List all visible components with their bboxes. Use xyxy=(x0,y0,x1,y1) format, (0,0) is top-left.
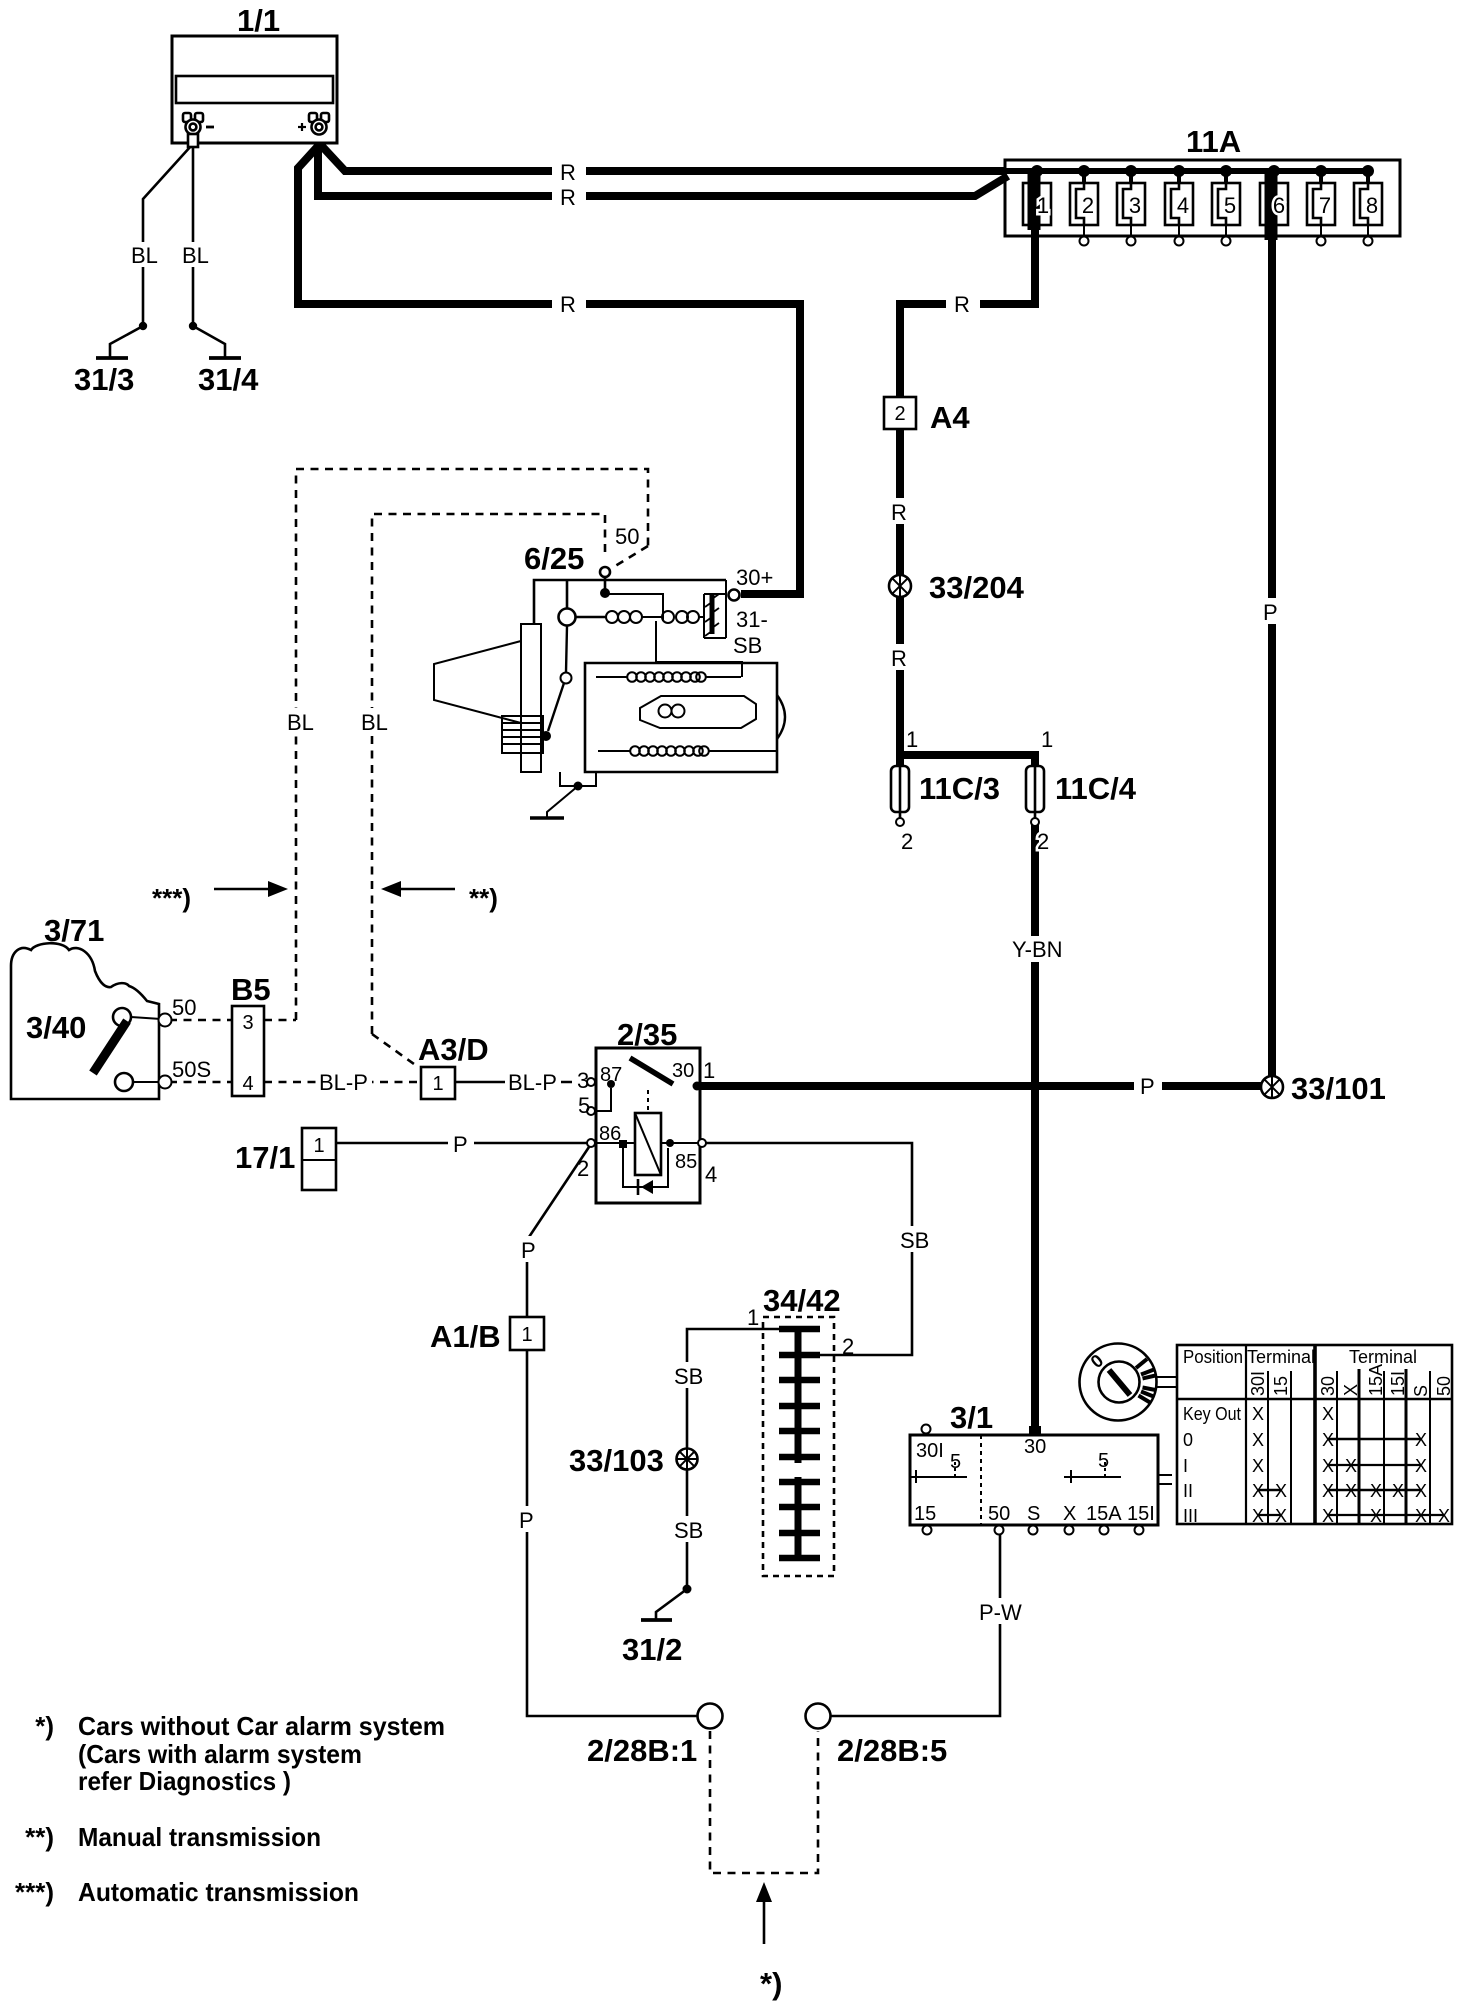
svg-text:R: R xyxy=(560,185,576,210)
dashed wire 3/40 pin50 to B5 pin3 xyxy=(169,1019,232,1022)
svg-text:P: P xyxy=(453,1132,468,1157)
svg-text:X: X xyxy=(1370,1506,1382,1526)
svg-text:X: X xyxy=(1322,1456,1334,1476)
svg-text:Terminal: Terminal xyxy=(1247,1347,1315,1367)
svg-text:R: R xyxy=(560,292,576,317)
relay pin 3 xyxy=(587,1078,595,1086)
svg-text:3: 3 xyxy=(1129,193,1141,218)
fuse box 11A xyxy=(1005,124,1400,236)
wire P fuse 6 down to splice 33/101 xyxy=(1268,168,1276,1087)
dashed box manual transmission (inner) xyxy=(372,514,605,1064)
svg-text:1: 1 xyxy=(906,727,918,752)
svg-text:(Cars with alarm system: (Cars with alarm system xyxy=(78,1739,362,1769)
svg-text:SB: SB xyxy=(900,1228,929,1253)
svg-text:X: X xyxy=(1063,1503,1076,1525)
wire R fuse 1 to connector A4 and 11C/3 xyxy=(900,168,1035,766)
wire label BL-P (dashed) xyxy=(316,1068,372,1095)
svg-text:30+: 30+ xyxy=(736,565,773,590)
svg-text:50S: 50S xyxy=(172,1057,211,1082)
svg-text:R: R xyxy=(954,292,970,317)
svg-text:2: 2 xyxy=(1037,829,1049,854)
svg-text:X: X xyxy=(1252,1481,1264,1501)
svg-text:Automatic transmission: Automatic transmission xyxy=(78,1877,359,1907)
svg-text:BL-P: BL-P xyxy=(508,1070,557,1095)
svg-text:X: X xyxy=(1252,1430,1264,1450)
starter motor housing xyxy=(585,663,777,772)
svg-text:Cars without Car alarm system: Cars without Car alarm system xyxy=(78,1711,445,1741)
svg-text:30: 30 xyxy=(1318,1376,1338,1396)
svg-text:B5: B5 xyxy=(231,972,271,1007)
svg-text:11C/3: 11C/3 xyxy=(919,771,1000,806)
starter armature xyxy=(640,696,756,728)
svg-text:1: 1 xyxy=(703,1058,715,1083)
svg-text:1: 1 xyxy=(313,1135,324,1157)
starter pull-in winding xyxy=(606,611,642,623)
wire label R (battery to starter) xyxy=(552,292,586,317)
svg-text:X: X xyxy=(1275,1506,1287,1526)
gear selector inhibitor switch 34/42 xyxy=(747,1283,854,1576)
svg-text:1: 1 xyxy=(1041,727,1053,752)
in-line fuse 11C/3 xyxy=(891,727,1000,854)
svg-text:0: 0 xyxy=(1183,1430,1193,1450)
fuse 4 xyxy=(1165,165,1193,246)
svg-text:4: 4 xyxy=(705,1162,717,1187)
wire label BL (battery right) xyxy=(178,242,214,268)
starter drive pinion xyxy=(521,624,541,772)
wire label P (relay to splice) xyxy=(1134,1072,1162,1099)
wire label BL (automatic dashed) xyxy=(282,708,318,735)
svg-text:S: S xyxy=(1027,1503,1040,1525)
relay pin 4 / 85 xyxy=(666,1139,674,1147)
wire label Y-BN xyxy=(1006,936,1068,962)
battery negative terminal xyxy=(183,113,214,147)
wire label R (battery to bus, upper) xyxy=(552,160,586,185)
svg-text:P: P xyxy=(1263,600,1278,625)
svg-text:**): **) xyxy=(25,1822,54,1852)
svg-text:5: 5 xyxy=(578,1093,590,1118)
svg-text:BL: BL xyxy=(361,710,388,735)
relay switch arm xyxy=(630,1058,673,1084)
wire label R (A4 upper) xyxy=(886,498,913,525)
svg-text:X: X xyxy=(1392,1481,1404,1501)
svg-text:X: X xyxy=(1252,1404,1264,1424)
svg-text:SB: SB xyxy=(733,633,762,658)
steering lock 3/71 (cloud) xyxy=(11,913,159,1099)
svg-text:2: 2 xyxy=(577,1156,589,1181)
relay coil link dashed xyxy=(647,1090,649,1113)
battery 1/1 xyxy=(172,3,337,143)
wire label P (A1/B lower) xyxy=(514,1506,540,1533)
svg-text:Y-BN: Y-BN xyxy=(1012,937,1063,962)
svg-text:1: 1 xyxy=(747,1305,759,1330)
ground 31/2 xyxy=(622,1589,687,1667)
svg-text:A4: A4 xyxy=(930,400,970,435)
svg-text:*): *) xyxy=(760,1966,782,2001)
wire BL battery- to ground 31/4 xyxy=(192,146,195,326)
svg-text:X: X xyxy=(1252,1456,1264,1476)
svg-text:3/40: 3/40 xyxy=(26,1010,86,1045)
arrow to footnote * at bottom xyxy=(756,1882,772,1944)
wire label BL (manual dashed) xyxy=(356,708,392,735)
svg-text:X: X xyxy=(1275,1481,1287,1501)
battery positive terminal xyxy=(298,113,329,135)
svg-text:S: S xyxy=(1411,1385,1431,1397)
dashed wire BL-P B5 pin4 to A3/D xyxy=(264,1081,421,1084)
fuse 2 xyxy=(1070,165,1098,246)
svg-text:R: R xyxy=(891,646,907,671)
relay suppression diode xyxy=(623,1148,668,1187)
svg-text:II: II xyxy=(1183,1481,1193,1501)
wire Y-BN 11C/4 pin2 down to ignition switch 3/1 terminal 30 xyxy=(1031,824,1039,1430)
svg-text:6/25: 6/25 xyxy=(524,541,584,576)
starter upper field winding xyxy=(596,672,741,682)
svg-text:P: P xyxy=(519,1508,534,1533)
wire SB relay 2/35 pin4 to 34/42 pin2 xyxy=(706,1143,912,1355)
footnote * cars without alarm xyxy=(35,1711,445,1796)
svg-text:refer Diagnostics ): refer Diagnostics ) xyxy=(78,1766,291,1796)
svg-text:33/204: 33/204 xyxy=(929,570,1025,605)
connector A3/D pin 1 xyxy=(418,1032,489,1099)
svg-text:2: 2 xyxy=(1082,193,1094,218)
svg-text:SB: SB xyxy=(674,1518,703,1543)
wire label P (A1/B upper) xyxy=(516,1236,542,1263)
wire label P-W xyxy=(974,1598,1026,1625)
dashed wire 3/40 pin50S to B5 pin4 xyxy=(169,1081,232,1084)
svg-text:2: 2 xyxy=(842,1334,854,1359)
svg-text:31/3: 31/3 xyxy=(74,362,134,397)
fuse 1 xyxy=(1023,165,1051,230)
table row II marks xyxy=(1258,1489,1281,1492)
starter solenoid contacts xyxy=(710,595,715,634)
svg-text:*): *) xyxy=(35,1711,54,1741)
starter solenoid housing xyxy=(534,580,726,624)
svg-text:1/1: 1/1 xyxy=(237,3,280,38)
svg-text:50: 50 xyxy=(1434,1376,1454,1396)
wire P 17/1 to relay 2/35 pin2 xyxy=(336,1142,587,1145)
svg-text:Key Out: Key Out xyxy=(1183,1404,1241,1424)
svg-text:3/1: 3/1 xyxy=(950,1400,993,1435)
svg-text:30I: 30I xyxy=(916,1440,944,1462)
splice 33/101 xyxy=(1261,1071,1386,1106)
svg-text:1: 1 xyxy=(432,1073,443,1095)
svg-text:2/28B:1: 2/28B:1 xyxy=(587,1733,697,1768)
starter hold-in winding xyxy=(662,611,699,623)
svg-text:X: X xyxy=(1322,1430,1334,1450)
svg-text:17/1: 17/1 xyxy=(235,1140,295,1175)
connector A1/B pin 1 xyxy=(430,1317,544,1354)
wire label SB (34/42 lower) xyxy=(670,1516,707,1543)
svg-text:2: 2 xyxy=(901,829,913,854)
wire P relay 2/35 pin2 down through A1/B to 2/28B:1 xyxy=(527,1147,697,1716)
svg-text:5: 5 xyxy=(1224,193,1236,218)
junction dot BL 31/4 xyxy=(189,322,197,330)
svg-text:P: P xyxy=(1140,1074,1155,1099)
fuse 3 xyxy=(1117,165,1145,246)
svg-text:5: 5 xyxy=(1098,1450,1109,1472)
connector 2/28B:1 xyxy=(587,1704,723,1769)
svg-text:50: 50 xyxy=(172,995,196,1020)
svg-text:85: 85 xyxy=(675,1151,697,1173)
svg-text:8: 8 xyxy=(1366,193,1378,218)
wire BL battery- to ground 31/3 xyxy=(143,146,191,326)
terminal 50 of starter xyxy=(600,567,610,577)
svg-text:X: X xyxy=(1415,1481,1427,1501)
starter motor 6/25 xyxy=(434,524,785,818)
svg-text:86: 86 xyxy=(599,1123,621,1145)
wire label BL (battery left) xyxy=(127,242,163,268)
arrow for manual transmission note xyxy=(381,881,455,897)
svg-text:III: III xyxy=(1183,1506,1198,1526)
svg-text:11A: 11A xyxy=(1186,124,1241,159)
svg-text:Manual transmission: Manual transmission xyxy=(78,1822,321,1852)
svg-text:31/2: 31/2 xyxy=(622,1632,682,1667)
wire P relay 2/35 pin1 to splice 33/101 xyxy=(700,1082,1272,1090)
connector 17/1 pin 1 xyxy=(235,1128,336,1190)
starter engagement lever xyxy=(541,626,572,741)
connector 2/28B:5 xyxy=(806,1704,948,1769)
relay pin 2 / 86 xyxy=(587,1139,595,1147)
svg-text:50: 50 xyxy=(988,1503,1010,1525)
svg-text:15I: 15I xyxy=(1127,1503,1155,1525)
svg-text:Position: Position xyxy=(1183,1347,1243,1367)
svg-text:30I: 30I xyxy=(1248,1371,1268,1396)
svg-text:3: 3 xyxy=(577,1068,589,1093)
svg-text:X: X xyxy=(1415,1456,1427,1476)
wire label P (17/1 to relay) xyxy=(448,1130,474,1157)
svg-text:7: 7 xyxy=(1319,193,1331,218)
junction dot BL 31/3 xyxy=(139,322,147,330)
svg-text:X: X xyxy=(1322,1506,1334,1526)
svg-text:15A: 15A xyxy=(1366,1364,1386,1396)
svg-text:2: 2 xyxy=(894,403,905,425)
svg-text:**): **) xyxy=(469,883,498,913)
wire label R (A4 lower) xyxy=(886,644,913,671)
svg-text:31/4: 31/4 xyxy=(198,362,259,397)
wire R battery+ to fuse box bus (upper) xyxy=(319,143,1005,171)
fuse 8 xyxy=(1354,165,1382,246)
svg-text:15: 15 xyxy=(914,1503,936,1525)
relay coil xyxy=(635,1113,661,1175)
svg-text:11C/4: 11C/4 xyxy=(1055,771,1137,806)
svg-text:50: 50 xyxy=(615,524,639,549)
svg-text:4: 4 xyxy=(242,1073,253,1095)
svg-text:6: 6 xyxy=(1273,193,1285,218)
connector B5 xyxy=(231,972,271,1096)
svg-text:X: X xyxy=(1415,1430,1427,1450)
svg-text:2/28B:5: 2/28B:5 xyxy=(837,1733,947,1768)
svg-text:***): ***) xyxy=(15,1877,54,1907)
svg-text:30: 30 xyxy=(1024,1436,1046,1458)
svg-text:1: 1 xyxy=(1037,193,1049,218)
dashed link 2/28B:1 to 2/28B:5 xyxy=(710,1731,818,1873)
splice 33/204 xyxy=(889,570,1025,605)
starter ground xyxy=(530,772,596,818)
svg-text:X: X xyxy=(1415,1506,1427,1526)
svg-text:A1/B: A1/B xyxy=(430,1319,501,1354)
relay pin 5 xyxy=(587,1107,595,1115)
svg-text:34/42: 34/42 xyxy=(763,1283,841,1318)
svg-text:P-W: P-W xyxy=(979,1600,1022,1625)
svg-text:33/103: 33/103 xyxy=(569,1443,664,1478)
footnote *** automatic transmission xyxy=(15,1877,359,1907)
svg-text:3/71: 3/71 xyxy=(44,913,104,948)
starter pinion hatched block xyxy=(502,716,543,753)
svg-text:SB: SB xyxy=(674,1364,703,1389)
wire R 11C/3 pin1 to 11C/4 pin1 xyxy=(900,755,1035,766)
svg-text:X: X xyxy=(1345,1456,1357,1476)
key position table xyxy=(1177,1345,1454,1526)
svg-text:P: P xyxy=(521,1238,536,1263)
svg-text:4: 4 xyxy=(1177,193,1189,218)
wire R battery+ to starter 30+ xyxy=(298,145,800,594)
ignition switch 3/1 xyxy=(910,1400,1172,1535)
dashed wire B5 pin3 to automatic transmission line xyxy=(264,1019,296,1022)
svg-text:X: X xyxy=(1252,1506,1264,1526)
wire P-W 3/1 terminal 50 to 2/28B:5 xyxy=(831,1535,1000,1716)
fuse 6 xyxy=(1260,165,1288,240)
svg-text:A3/D: A3/D xyxy=(418,1032,489,1067)
svg-text:X: X xyxy=(1322,1404,1334,1424)
dashed box automatic transmission (outer) xyxy=(296,469,648,1020)
wire label BL-P (solid) xyxy=(505,1068,561,1095)
wire label SB (34/42 upper) xyxy=(670,1362,707,1389)
svg-text:30: 30 xyxy=(672,1060,694,1082)
svg-text:R: R xyxy=(560,160,576,185)
starter solenoid plunger xyxy=(559,609,576,626)
footnote ** manual transmission xyxy=(25,1822,321,1852)
connector A4 pin 2 xyxy=(884,397,970,435)
ground 31/3 xyxy=(74,326,143,397)
junction dot SB at ground 31/2 xyxy=(683,1585,692,1594)
ignition key symbol xyxy=(1080,1344,1178,1421)
fuse 5 xyxy=(1212,165,1240,246)
svg-text:X: X xyxy=(1438,1506,1450,1526)
wire label R (fuse1 to A4) xyxy=(946,292,980,317)
svg-text:X: X xyxy=(1345,1481,1357,1501)
svg-text:BL: BL xyxy=(287,710,314,735)
svg-text:3: 3 xyxy=(242,1012,253,1034)
svg-text:X: X xyxy=(1370,1481,1382,1501)
table row III marks xyxy=(1258,1514,1281,1516)
svg-text:31-: 31- xyxy=(736,607,768,632)
svg-text:R: R xyxy=(891,500,907,525)
wire label R (battery second) xyxy=(552,185,586,210)
svg-text:I: I xyxy=(1183,1456,1188,1476)
svg-text:X: X xyxy=(1322,1481,1334,1501)
relay 2/35 xyxy=(577,1017,717,1203)
svg-text:15A: 15A xyxy=(1086,1503,1122,1525)
svg-text:***): ***) xyxy=(152,883,191,913)
svg-text:BL-P: BL-P xyxy=(319,1070,368,1095)
wire R battery+ to fuse box (second) xyxy=(318,143,1008,196)
svg-text:BL: BL xyxy=(182,243,209,268)
wire label SB (relay pin4) xyxy=(896,1226,933,1253)
starter terminal 30+ xyxy=(729,590,740,601)
wire label P (fuse 6) xyxy=(1258,598,1286,625)
fuse 7 xyxy=(1307,165,1335,246)
arrow for automatic transmission note xyxy=(214,881,288,897)
svg-text:1: 1 xyxy=(521,1324,532,1346)
splice 33/103 xyxy=(569,1443,698,1478)
wire SB 34/42 pin1 to ground 31/2 xyxy=(687,1329,779,1589)
ignition starter switch 3/40 xyxy=(26,995,211,1091)
svg-text:15: 15 xyxy=(1271,1376,1291,1396)
in-line fuse 11C/4 xyxy=(1026,727,1137,854)
svg-text:33/101: 33/101 xyxy=(1291,1071,1386,1106)
wire BL-P A3/D to relay 2/35 pin3 xyxy=(455,1081,572,1084)
svg-text:BL: BL xyxy=(131,243,158,268)
ground 31/4 xyxy=(193,326,259,397)
svg-text:X: X xyxy=(1341,1384,1361,1396)
starter lower field winding xyxy=(598,746,777,756)
svg-text:15I: 15I xyxy=(1388,1371,1408,1396)
